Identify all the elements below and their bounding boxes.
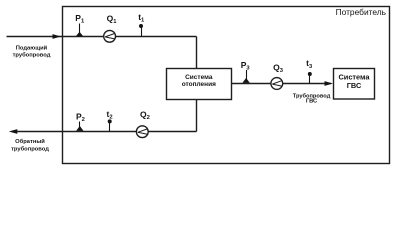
consumer boundary rectangle xyxy=(63,7,390,164)
block DHW system xyxy=(334,69,375,100)
arrow into DHW system xyxy=(325,81,334,86)
wire drop into heating system xyxy=(196,37,198,69)
svg-text:Система: Система xyxy=(185,74,213,81)
arrow into consumer xyxy=(53,34,62,39)
arrow out of consumer xyxy=(9,129,17,134)
svg-text:ГВС: ГВС xyxy=(347,81,362,90)
wire hot water supply pipe xyxy=(232,83,332,85)
wire heating system to return pipe xyxy=(196,100,198,132)
wire supply pipe (top) xyxy=(7,36,197,38)
svg-text:Обратный: Обратный xyxy=(15,138,45,145)
svg-text:трубопровод: трубопровод xyxy=(11,146,49,153)
svg-text:Подающий: Подающий xyxy=(16,44,48,51)
svg-text:отопления: отопления xyxy=(182,81,216,88)
svg-text:ГВС: ГВС xyxy=(306,99,317,105)
svg-text:Потребитель: Потребитель xyxy=(336,7,387,17)
wire return pipe (bottom) xyxy=(17,131,197,133)
svg-text:трубопровод: трубопровод xyxy=(13,51,51,58)
svg-text:Система: Система xyxy=(338,72,370,81)
block heating system xyxy=(167,69,232,100)
